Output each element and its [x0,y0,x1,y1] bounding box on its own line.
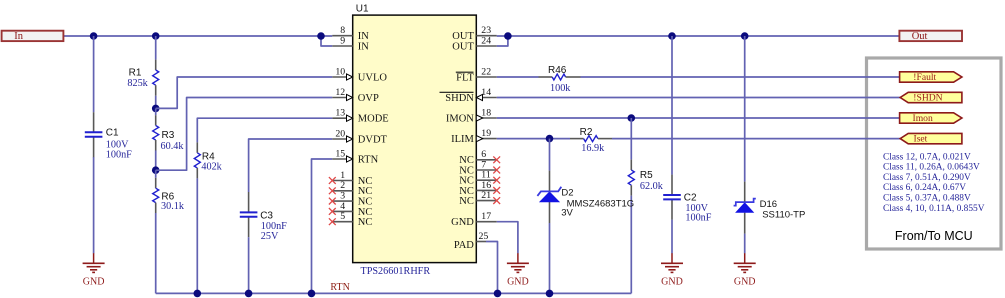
wire FLT net left of R46 [497,76,539,78]
svg-text:SS110-TP: SS110-TP [762,210,805,221]
pin 13 MODE (left) [332,117,352,119]
svg-text:Iset: Iset [914,134,928,145]
svg-text:Out: Out [912,31,928,42]
pin 3 NC (left) [332,200,352,202]
svg-text:24: 24 [481,35,491,46]
svg-text:9: 9 [340,35,345,46]
svg-text:21: 21 [481,190,491,201]
svg-text:18: 18 [481,107,491,118]
capacitor C1 [93,112,95,132]
node !SHDN flag [900,92,962,102]
wire D2 branch [549,139,551,171]
wire FLT net to !Fault flag [581,76,900,78]
pin 15 RTN (left) [332,158,352,160]
svg-text:GND: GND [451,217,474,228]
diode D2 zener [549,171,551,192]
wire SHDN net [497,97,901,99]
pin 18 IMON (right) [476,117,496,119]
resistor R6 [155,170,157,178]
pin 7 NC (right) [476,169,496,171]
svg-text:5: 5 [340,211,345,222]
junction RTN pin wire/rail [308,290,316,298]
svg-text:C3: C3 [260,210,273,221]
wire IMON net [497,117,900,119]
op-amp U1 IC body TPS26601 [353,15,477,263]
svg-text:SHDN: SHDN [445,93,474,104]
junction R1/R3/UVLO [152,105,160,113]
junction R4/RTN rail [194,290,202,298]
port In [2,31,64,41]
junction In/pin8 [317,32,325,40]
svg-text:100nF: 100nF [685,212,711,223]
svg-text:14: 14 [481,87,491,98]
svg-text:C2: C2 [684,192,697,203]
junction ILIM/D2 [546,135,554,143]
wire DVDT net [249,139,333,192]
capacitor C3 [248,192,250,212]
svg-text:Imon: Imon [913,113,933,124]
pin 23 OUT (right) [476,35,496,37]
wire C2 branch [671,36,673,175]
junction IMON/R5 [628,114,636,122]
svg-text:D16: D16 [760,199,777,210]
svg-text:Class 5, 0.37A, 0.488V: Class 5, 0.37A, 0.488V [883,194,971,204]
pin 9 IN (left) [332,45,352,47]
svg-text:Class 11, 0.26A, 0.0643V: Class 11, 0.26A, 0.0643V [883,163,980,173]
resistor R5 [630,118,632,160]
node !Fault flag [900,72,962,82]
junction In/R1 [152,32,160,40]
junction R3/R6/OVP [152,166,160,174]
svg-text:13: 13 [335,108,345,119]
junction C3/RTN rail [245,290,253,298]
svg-text:MODE: MODE [358,114,389,125]
ground GND under C2 [671,253,673,263]
svg-text:100k: 100k [550,83,571,94]
svg-text:30.1k: 30.1k [161,201,185,212]
svg-text:402k: 402k [201,162,222,173]
svg-text:100nF: 100nF [106,150,132,161]
node Iset flag [900,133,962,143]
svg-text:R2: R2 [580,127,593,138]
pin 19 ILIM (right) [476,138,496,140]
svg-text:12: 12 [335,87,345,98]
wire In net top rail [64,35,333,37]
junction D2/RTN rail [546,290,554,298]
pin 22 FLT (right) [476,76,496,78]
svg-text:NC: NC [358,217,373,228]
pin 24 OUT (right) [476,45,496,47]
pin 16 NC (right) [476,189,496,191]
svg-text:Class 6, 0.24A, 0.67V: Class 6, 0.24A, 0.67V [883,183,966,193]
svg-text:RTN: RTN [358,154,379,165]
pin 4 NC (left) [332,210,352,212]
wire ILIM net left segment [497,138,570,140]
svg-text:UVLO: UVLO [358,72,388,83]
wire D16 branch [744,36,746,182]
pin 17 GND (right) [476,221,496,223]
pin 21 NC (right) [476,200,496,202]
svg-text:15: 15 [335,148,345,159]
resistor R1 [155,36,157,60]
svg-text:TPS26601RHFR: TPS26601RHFR [361,266,431,277]
svg-text:Class 4, 10, 0.11A, 0.855V: Class 4, 10, 0.11A, 0.855V [883,204,985,214]
wire OVP net [156,98,333,171]
svg-text:OUT: OUT [452,41,474,52]
pin 25 PAD (right) [476,241,486,243]
svg-text:!Fault: !Fault [913,72,936,83]
wire ILIM net to Iset flag [612,138,900,140]
wire pin9 hook [321,36,332,46]
wire RTN pin15 net [312,159,333,293]
svg-text:NC: NC [459,196,474,207]
svg-text:GND: GND [734,276,756,287]
svg-text:16.9k: 16.9k [581,143,605,154]
resistor R2 [570,138,584,140]
svg-text:19: 19 [481,128,491,139]
svg-text:RTN: RTN [330,282,349,293]
svg-text:25V: 25V [261,231,279,242]
junction OUT/C2 [668,32,676,40]
pin 2 NC (left) [332,190,352,192]
wire MODE net [197,118,332,142]
svg-text:GND: GND [661,276,683,287]
svg-text:R1: R1 [129,67,142,78]
svg-text:In: In [14,31,23,42]
svg-text:IMON: IMON [446,113,474,124]
svg-text:FLT: FLT [456,72,474,83]
junction In/C1 [90,32,98,40]
svg-text:Class 12, 0.7A, 0.021V: Class 12, 0.7A, 0.021V [883,152,971,162]
diode D16 schottky [744,182,746,202]
pin 11 NC (right) [476,179,496,181]
wire OUT net top right [497,35,900,37]
svg-text:IN: IN [358,41,369,52]
svg-text:R3: R3 [162,130,175,141]
pin 10 UVLO (left) [332,76,352,78]
pin 12 OVP (left) [332,97,352,99]
pin 8 IN (left) [332,35,352,37]
svg-text:GND: GND [83,276,105,287]
svg-text:25: 25 [479,231,489,242]
ground GND under C1 [93,253,95,263]
svg-text:From/To MCU: From/To MCU [895,229,973,243]
svg-text:62.0k: 62.0k [640,181,664,192]
svg-text:PAD: PAD [454,240,474,251]
svg-text:!SHDN: !SHDN [913,93,942,104]
svg-text:20: 20 [335,128,345,139]
svg-text:17: 17 [481,211,491,222]
wire PAD pin25 net [486,242,498,294]
svg-text:R46: R46 [548,65,567,76]
svg-text:22: 22 [481,66,491,77]
wire pin24 hook [497,36,508,46]
svg-text:DVDT: DVDT [358,134,388,145]
pin 5 NC (left) [332,221,352,223]
junction PAD/RTN rail [494,290,502,298]
ground GND under pin 17 [517,253,519,263]
wire C1 branch [93,36,95,112]
pin 6 NC (right) [476,159,496,161]
svg-text:825k: 825k [127,78,148,89]
pin 14 SHDN (right) [476,97,496,99]
port Out [899,31,962,41]
resistor R3 [155,108,157,115]
wire UVLO net [156,77,333,108]
svg-text:3V: 3V [561,208,573,219]
svg-text:ILIM: ILIM [451,134,474,145]
junction OUT/D16 [741,32,749,40]
MCU annotation box From/To MCU [867,58,1002,249]
svg-text:OVP: OVP [358,93,379,104]
wire GND pin17 net [497,222,518,254]
pin 20 DVDT (left) [332,138,352,140]
svg-text:60.4k: 60.4k [161,141,185,152]
ground GND under D16 [744,253,746,263]
pin 1 NC (left) [332,180,352,182]
resistor R4 [196,142,198,152]
capacitor C2 [671,175,673,195]
svg-text:Class 7, 0.51A, 0.290V: Class 7, 0.51A, 0.290V [883,173,971,183]
wire RTN bottom rail [156,292,632,294]
junction OUT pins [504,32,512,40]
svg-text:C1: C1 [106,128,119,139]
svg-text:U1: U1 [356,4,369,15]
svg-text:MMSZ4683T1G: MMSZ4683T1G [567,198,635,209]
node Imon flag [900,113,962,123]
svg-text:10: 10 [335,66,345,77]
resistor R46 [539,76,553,78]
svg-text:R5: R5 [640,170,653,181]
svg-text:GND: GND [507,276,529,287]
svg-text:D2: D2 [561,188,573,199]
